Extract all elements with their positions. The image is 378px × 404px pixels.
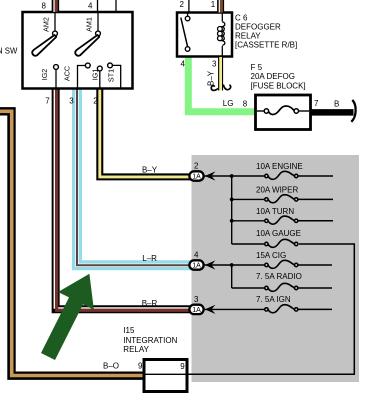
svg-text:8: 8 [42,2,47,11]
svg-text:4: 4 [181,60,186,69]
svg-text:2: 2 [93,97,98,106]
svg-text:IG2: IG2 [40,69,49,81]
svg-text:4: 4 [88,2,93,11]
svg-text:RELAY: RELAY [123,345,149,354]
svg-text:IG1: IG1 [90,69,99,81]
svg-text:15A CIG: 15A CIG [256,251,286,260]
svg-text:B–Y: B–Y [207,70,216,86]
svg-text:2: 2 [194,161,199,170]
svg-text:RELAY: RELAY [235,32,261,41]
svg-text:3: 3 [194,295,199,304]
svg-text:10A TURN: 10A TURN [256,207,294,216]
svg-text:[FUSE BLOCK]: [FUSE BLOCK] [251,81,306,90]
svg-text:B–R: B–R [142,299,158,308]
svg-text:7. 5A RADIO: 7. 5A RADIO [256,272,302,281]
svg-text:3: 3 [69,97,74,106]
svg-text:B: B [334,100,339,109]
svg-text:10A ENGINE: 10A ENGINE [256,162,303,171]
svg-text:[CASSETTE R/B]: [CASSETTE R/B] [235,41,297,50]
svg-text:AM1: AM1 [85,17,94,32]
svg-text:B–Y: B–Y [142,166,158,175]
svg-text:C 6: C 6 [235,14,248,23]
svg-text:10A GAUGE: 10A GAUGE [256,229,301,238]
svg-text:7. 5A IGN: 7. 5A IGN [256,295,291,304]
svg-text:4: 4 [194,250,199,259]
svg-text:ACC: ACC [63,66,72,81]
svg-text:20A DEFOG: 20A DEFOG [251,72,295,81]
svg-text:7: 7 [45,97,50,106]
svg-text:1: 1 [211,0,216,9]
svg-text:LG: LG [223,99,234,108]
svg-text:ST1: ST1 [106,69,115,82]
svg-text:2: 2 [180,0,185,9]
svg-text:9: 9 [138,362,143,371]
svg-text:INTEGRATION: INTEGRATION [123,336,177,345]
svg-text:L–R: L–R [142,254,157,263]
svg-text:F 5: F 5 [251,63,263,72]
svg-text:1A: 1A [192,263,201,270]
svg-text:DEFOGGER: DEFOGGER [235,23,281,32]
svg-text:I15: I15 [123,326,135,335]
svg-text:B–O: B–O [103,362,119,371]
svg-text:9: 9 [180,362,185,371]
svg-text:8: 8 [243,100,248,109]
svg-text:AM2: AM2 [42,17,51,32]
svg-text:1A: 1A [192,174,201,181]
svg-text:N SW: N SW [0,47,18,56]
svg-text:20A WIPER: 20A WIPER [256,185,298,194]
svg-text:7: 7 [314,99,319,108]
svg-text:1A: 1A [192,307,201,314]
svg-text:3: 3 [212,60,217,69]
